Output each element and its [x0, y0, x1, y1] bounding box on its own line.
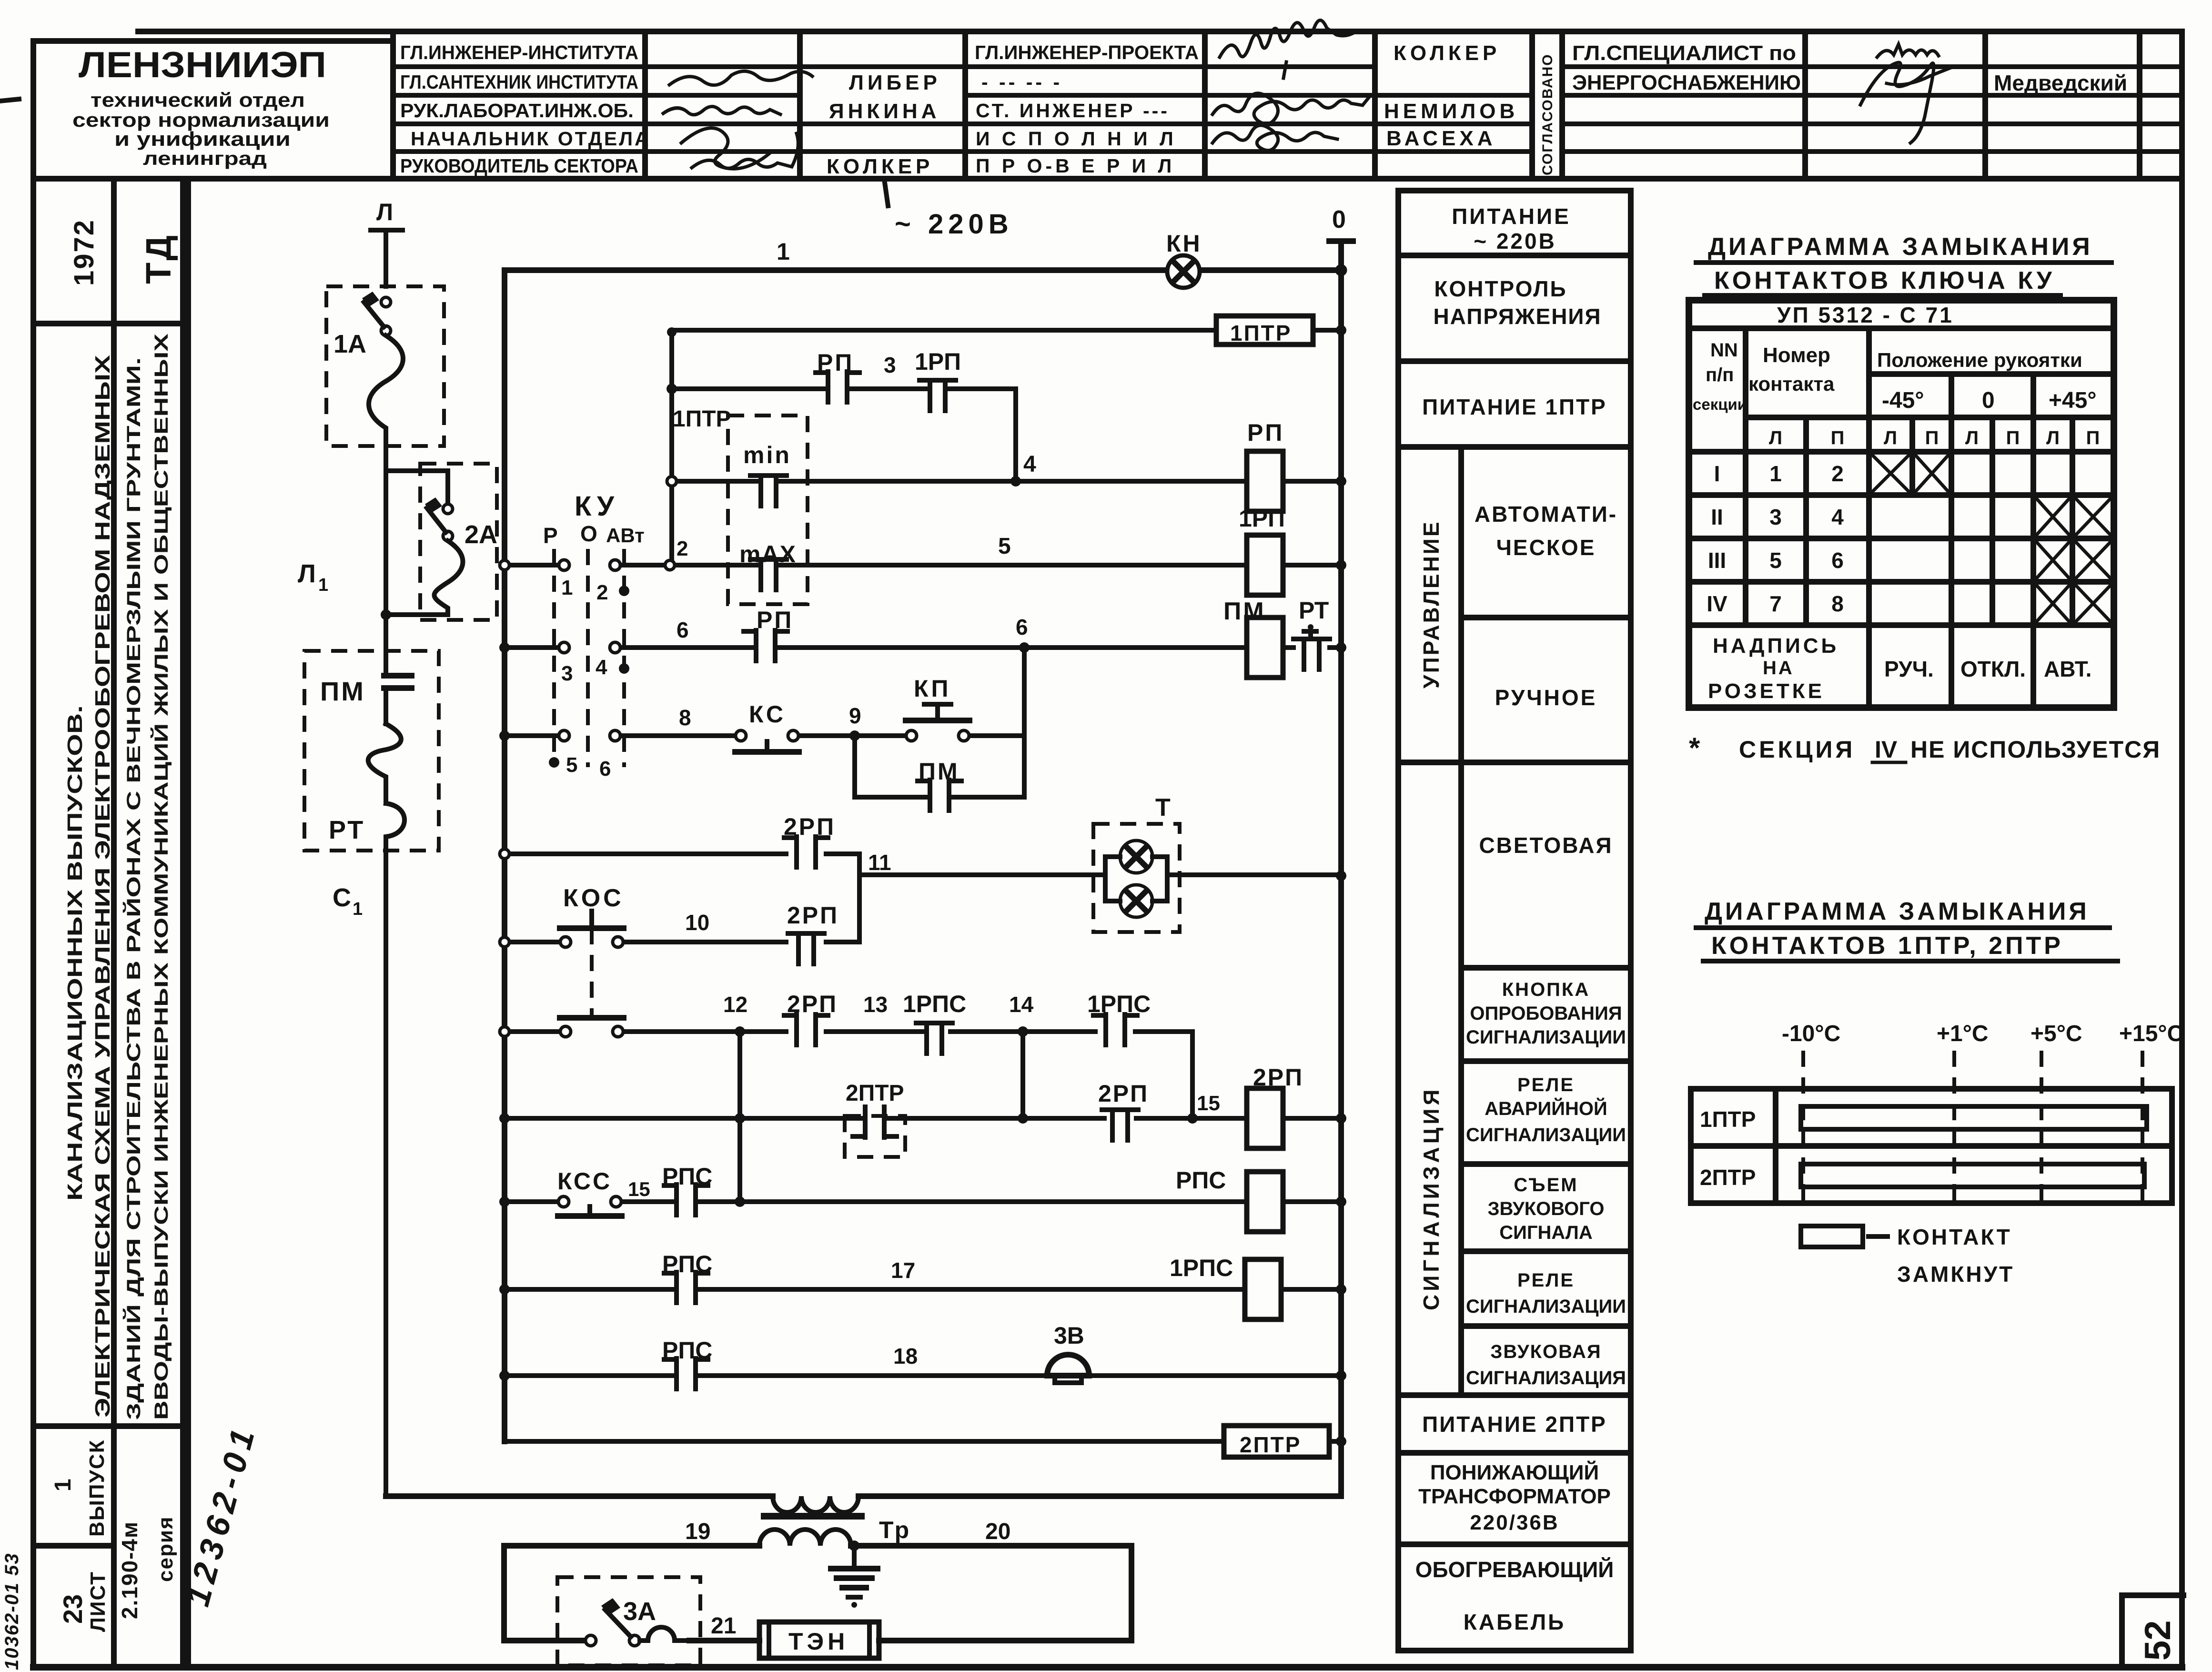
svg-text:СИГНАЛИЗАЦИЯ: СИГНАЛИЗАЦИЯ — [1466, 1368, 1626, 1388]
junction: bus row 15 — [499, 1113, 510, 1124]
wire: lamp row upper branch — [510, 854, 1093, 875]
thermal contact РТ (NC) — [1293, 597, 1330, 669]
lamp Т lower — [1120, 885, 1152, 917]
table2 title — [1705, 898, 2090, 960]
table2 row labels — [1700, 1107, 1756, 1190]
svg-text:3: 3 — [884, 353, 896, 377]
svg-text:РПС: РПС — [662, 1251, 712, 1277]
wire: row 4 (auto via min) — [672, 479, 1341, 484]
svg-text:ПМ: ПМ — [919, 758, 960, 785]
svg-text:КОНТАКТОВ 1ПТР, 2ПТР: КОНТАКТОВ 1ПТР, 2ПТР — [1711, 932, 2063, 960]
svg-text:КОНТАКТ: КОНТАКТ — [1897, 1225, 2012, 1249]
svg-text:Номер: Номер — [1763, 344, 1830, 367]
wire: row 17 — [505, 1287, 1341, 1292]
label С1 — [333, 883, 363, 919]
svg-text:4: 4 — [1831, 505, 1844, 529]
svg-text:6: 6 — [1831, 548, 1844, 573]
key КУ contact 4 — [596, 642, 620, 679]
svg-text:NN: NN — [1710, 340, 1738, 361]
contactor ПМ main contact — [384, 671, 412, 724]
button КСС — [557, 1168, 622, 1216]
wire: row 6 (manual) — [510, 645, 1341, 650]
label: реле аварийной сигнализации — [1466, 1074, 1626, 1145]
svg-text:-10°С: -10°С — [1782, 1021, 1840, 1046]
breaker 2А thermal element — [386, 541, 463, 615]
svg-text:8: 8 — [1831, 591, 1844, 616]
svg-text:5: 5 — [1769, 548, 1782, 573]
svg-text:Л: Л — [1965, 427, 1979, 448]
svg-text:1А: 1А — [333, 330, 366, 358]
svg-text:КП: КП — [914, 675, 951, 702]
ground — [831, 1546, 878, 1608]
svg-text:ВВОДЫ-ВЫПУСКИ ИНЖЕНЕРНЫХ КОМ: ВВОДЫ-ВЫПУСКИ ИНЖЕНЕРНЫХ КОММУНИКАЦИЙ ЖИ… — [150, 334, 172, 1420]
svg-text:2ПТР: 2ПТР — [846, 1081, 904, 1106]
svg-text:1: 1 — [51, 1479, 76, 1491]
resistor 2ПТР (feed) — [1224, 1426, 1329, 1457]
junction: node14 x row15 — [1018, 1113, 1028, 1124]
svg-text:КОЛКЕР: КОЛКЕР — [1394, 41, 1500, 65]
svg-text:СТ. ИНЖЕНЕР ---: СТ. ИНЖЕНЕР --- — [976, 100, 1170, 122]
svg-text:ТЭН: ТЭН — [788, 1628, 848, 1655]
svg-text:СЕКЦИЯ: СЕКЦИЯ — [1739, 736, 1855, 763]
svg-text:РПС: РПС — [662, 1163, 712, 1190]
table1 X marks rows II-IV — [2033, 495, 2114, 625]
svg-text:220/36В: 220/36В — [1470, 1511, 1559, 1534]
svg-text:6: 6 — [677, 618, 689, 642]
svg-text:2: 2 — [596, 581, 608, 604]
junction: bus node 2ПТР — [1336, 1436, 1346, 1447]
contact 2РП (lamp branch, NC) — [788, 933, 824, 964]
phase terminal Л — [371, 199, 403, 286]
resistor 1ПТР (feed) — [1216, 316, 1313, 345]
wire: right bus N — [1338, 241, 1344, 1496]
svg-text:РУЧ.: РУЧ. — [1884, 657, 1934, 681]
header titles middle block — [975, 41, 1199, 177]
svg-text:ЭЛЕКТРИЧЕСКАЯ СХЕМА УПРАВЛЕН: ЭЛЕКТРИЧЕСКАЯ СХЕМА УПРАВЛЕНИЯ ЭЛЕКТРООБ… — [91, 355, 114, 1418]
svg-text:2РП: 2РП — [787, 902, 839, 929]
breaker 2А dashed enclosure — [420, 464, 497, 620]
svg-text:КАБЕЛЬ: КАБЕЛЬ — [1464, 1610, 1566, 1634]
svg-text:IV: IV — [1875, 736, 1898, 763]
svg-text:ПИТАНИЕ 1ПТР: ПИТАНИЕ 1ПТР — [1422, 395, 1607, 419]
svg-text:П: П — [2006, 427, 2020, 448]
svg-text:РУЧНОЕ: РУЧНОЕ — [1495, 685, 1597, 710]
svg-text:ГЛ.ИНЖЕНЕР-ПРОЕКТА: ГЛ.ИНЖЕНЕР-ПРОЕКТА — [975, 41, 1199, 63]
table2 temperature labels — [1782, 1021, 2183, 1046]
svg-text:КН: КН — [1166, 230, 1202, 257]
svg-text:*: * — [1689, 732, 1700, 764]
svg-text:1: 1 — [318, 575, 328, 595]
svg-text:НАЧАЛЬНИК ОТДЕЛА: НАЧАЛЬНИК ОТДЕЛА — [411, 128, 651, 150]
wire: row 5 (auto via max) — [510, 563, 1341, 567]
svg-text:1РПС: 1РПС — [1170, 1255, 1233, 1281]
svg-text:КОЛКЕР: КОЛКЕР — [827, 155, 933, 178]
svg-text:12: 12 — [723, 992, 747, 1017]
svg-text:+45°: +45° — [2049, 388, 2097, 413]
wire: node 12 drop — [737, 1032, 742, 1202]
svg-text:23: 23 — [58, 1594, 88, 1624]
svg-text:ЧЕСКОЕ: ЧЕСКОЕ — [1496, 535, 1596, 560]
svg-text:1ПТР: 1ПТР — [1700, 1107, 1756, 1132]
svg-text:РТ: РТ — [329, 816, 365, 844]
signature: медведский — [1877, 44, 1939, 57]
svg-text:КУ: КУ — [575, 491, 619, 522]
junction: row 3 tee — [667, 384, 677, 394]
svg-text:ТД: ТД — [139, 233, 178, 284]
svg-text:ЛИБЕР: ЛИБЕР — [849, 71, 941, 94]
contact 1ПТР min — [750, 476, 787, 506]
svg-text:РТ: РТ — [1299, 597, 1329, 624]
wire: row 12 — [510, 1032, 1192, 1118]
junction: 2А rejoin — [381, 609, 391, 620]
signal lamps Т dashed enclosure — [1093, 824, 1180, 932]
svg-text:ГЛ.САНТЕХНИК ИНСТИТУТА: ГЛ.САНТЕХНИК ИНСТИТУТА — [400, 71, 638, 93]
svg-text:Л: Л — [1769, 427, 1782, 448]
bus terminal lamp row — [500, 849, 509, 859]
svg-text:1: 1 — [561, 576, 573, 599]
svg-text:2А: 2А — [465, 520, 497, 549]
svg-text:Л: Л — [298, 559, 316, 588]
svg-text:КОНТАКТОВ КЛЮЧА КУ: КОНТАКТОВ КЛЮЧА КУ — [1714, 267, 2055, 294]
svg-text:КНОПКА: КНОПКА — [1502, 979, 1590, 1000]
svg-text:РП: РП — [817, 349, 854, 376]
lamp КН — [1166, 230, 1202, 288]
junction: bus node ПМ — [1336, 642, 1346, 653]
svg-text:О: О — [580, 521, 597, 546]
svg-text:1РП: 1РП — [1239, 505, 1285, 532]
relay coil РП — [1247, 419, 1284, 511]
svg-text:и унификации: и унификации — [114, 128, 291, 150]
svg-text:-45°: -45° — [1882, 388, 1924, 413]
logo ЛЕНЗНИИЭП — [72, 45, 330, 169]
svg-text:НА: НА — [1763, 658, 1794, 679]
table1 X marks row I — [1869, 452, 1951, 495]
table1 title — [1708, 233, 2093, 294]
label Л1 — [298, 559, 328, 595]
svg-text:ЗВУКОВАЯ: ЗВУКОВАЯ — [1490, 1341, 1601, 1362]
svg-text:~ 220В: ~ 220В — [895, 209, 1013, 240]
wire: top bus (node 1) — [505, 267, 1341, 273]
svg-text:СИГНАЛИЗАЦИИ: СИГНАЛИЗАЦИИ — [1466, 1296, 1626, 1317]
svg-text:8: 8 — [679, 705, 691, 730]
label column grid — [1398, 191, 1631, 1651]
contact 1РПС (NO) — [1093, 1014, 1137, 1045]
svg-text:ТРАНСФОРМАТОР: ТРАНСФОРМАТОР — [1418, 1485, 1611, 1508]
svg-text:Л: Л — [1884, 427, 1897, 448]
key КУ contact 2 — [596, 560, 620, 604]
svg-text:10: 10 — [685, 910, 709, 935]
junction: bus row 8 — [499, 730, 510, 741]
wire: left control bus — [502, 270, 507, 1441]
bus terminal row 5 — [500, 560, 509, 570]
wire: 2ПТР feed row — [505, 1439, 1341, 1444]
svg-text:контакта: контакта — [1748, 373, 1835, 395]
breaker 3А switch — [586, 1598, 640, 1646]
svg-text:15: 15 — [1197, 1092, 1220, 1115]
bell ЗВ — [1047, 1322, 1089, 1383]
svg-text:АВТ.: АВТ. — [2044, 657, 2091, 681]
svg-text:52: 52 — [2138, 1620, 2178, 1661]
svg-text:СИГНАЛИЗАЦИИ: СИГНАЛИЗАЦИИ — [1466, 1027, 1626, 1048]
thermal relay РТ heater element — [368, 724, 401, 803]
svg-text:СИГНАЛИЗАЦИИ: СИГНАЛИЗАЦИИ — [1466, 1125, 1626, 1145]
svg-text:ЯНКИНА: ЯНКИНА — [829, 100, 940, 123]
wire: secondary row — [504, 1543, 1131, 1549]
node 9 — [849, 703, 861, 741]
svg-text:РПС: РПС — [1176, 1167, 1226, 1194]
label: питание 220в — [1452, 204, 1571, 253]
breaker 1А thermal element — [369, 335, 403, 446]
svg-text:7: 7 — [1769, 591, 1782, 616]
label: реле сигнализации — [1466, 1270, 1626, 1317]
relay coil 1РП — [1239, 505, 1285, 595]
junction: bus row 18 — [499, 1370, 510, 1381]
svg-text:НЕМИЛОВ: НЕМИЛОВ — [1384, 100, 1518, 123]
thermal relay РТ heater loop — [386, 803, 404, 851]
key КУ column О — [586, 549, 590, 767]
contact 1РПС (NC) — [916, 1023, 952, 1054]
svg-text:СВЕТОВАЯ: СВЕТОВАЯ — [1479, 833, 1613, 858]
contact 2РП (signal chain, NO) — [784, 1014, 828, 1045]
contactor ПМ dashed enclosure — [304, 651, 439, 851]
relay coil 2РП — [1247, 1064, 1303, 1148]
svg-text:6: 6 — [1016, 615, 1028, 639]
svg-text:АВАРИЙНОЙ: АВАРИЙНОЙ — [1485, 1097, 1607, 1119]
svg-text:1ПТР: 1ПТР — [673, 406, 731, 432]
svg-text:ленинград: ленинград — [143, 148, 267, 169]
contact РПС (NO, seal) — [664, 1185, 708, 1215]
svg-text:1РПС: 1РПС — [1087, 991, 1151, 1017]
junction: bus node 1РП — [1336, 560, 1346, 570]
svg-text:1: 1 — [777, 238, 790, 265]
svg-text:РЕЛЕ: РЕЛЕ — [1517, 1270, 1575, 1291]
svg-text:1972: 1972 — [69, 219, 100, 286]
svg-text:2.190-4м: 2.190-4м — [117, 1521, 142, 1619]
svg-text:2ПТР: 2ПТР — [1700, 1165, 1756, 1190]
svg-text:КОНТРОЛЬ: КОНТРОЛЬ — [1434, 276, 1567, 301]
junction: bus node РП — [1336, 476, 1346, 486]
svg-text:IV: IV — [1707, 591, 1727, 616]
wire: lamp row lower branch — [510, 875, 859, 942]
svg-text:п/п: п/п — [1706, 365, 1734, 385]
header names left block — [827, 71, 941, 178]
key КУ contact 1 — [559, 560, 573, 599]
svg-text:КС: КС — [749, 701, 786, 728]
transformer Тр primary winding — [773, 1496, 859, 1512]
svg-text:ГЛ.СПЕЦИАЛИСТ по: ГЛ.СПЕЦИАЛИСТ по — [1572, 41, 1796, 65]
svg-text:1: 1 — [353, 899, 363, 919]
svg-text:3: 3 — [561, 662, 573, 685]
svg-text:СЪЕМ: СЪЕМ — [1514, 1175, 1578, 1196]
wire: КСС row — [510, 1199, 1341, 1204]
table1 grid — [1689, 300, 2114, 708]
svg-text:Л: Л — [2046, 427, 2060, 448]
svg-text:С: С — [333, 883, 351, 912]
svg-text:РЕЛЕ: РЕЛЕ — [1517, 1074, 1575, 1095]
junction: node12 vertical end — [735, 1196, 745, 1207]
junction: 1ПТР feed corner — [667, 327, 677, 337]
breaker 1А dashed enclosure — [326, 286, 444, 446]
wire: cable feed С1 — [384, 851, 388, 1496]
button КП (start) — [906, 675, 970, 741]
breaker 3А dashed enclosure — [557, 1577, 700, 1665]
svg-text:0: 0 — [1332, 206, 1346, 233]
svg-text:ПМ: ПМ — [1223, 598, 1266, 625]
junction: bus node 2РП — [1336, 1113, 1346, 1124]
label: кнопка опробования сигнализации — [1466, 979, 1626, 1048]
wire: lamp internal left — [1093, 857, 1120, 901]
svg-text:2РП: 2РП — [784, 813, 836, 840]
svg-text:6: 6 — [599, 757, 611, 780]
contact 2РП (NC, release) — [1102, 1110, 1138, 1140]
mark: contact 1-2 closed in АВТ — [619, 586, 629, 596]
button КОС (twin, upper) — [560, 884, 624, 947]
wire: node 14 drop — [1020, 1032, 1025, 1118]
contact РПС (row 17, NO) — [664, 1272, 708, 1303]
contact РП (seal-in, NO) — [816, 372, 859, 402]
label: понижающий трансформатор — [1418, 1460, 1611, 1534]
svg-text:2РП: 2РП — [1098, 1080, 1149, 1107]
wire: row 15 — [505, 1116, 1341, 1121]
node 14 — [1009, 992, 1034, 1037]
svg-text:ОПРОБОВАНИЯ: ОПРОБОВАНИЯ — [1470, 1003, 1622, 1024]
svg-text:5: 5 — [566, 753, 577, 777]
svg-text:III: III — [1708, 548, 1726, 573]
note секция IV — [1689, 732, 2161, 764]
contact РП (manual row, NO) — [744, 630, 788, 661]
svg-text:1РП: 1РП — [915, 348, 961, 375]
svg-text:5: 5 — [998, 534, 1011, 559]
svg-text:~ 220В: ~ 220В — [1474, 229, 1556, 253]
svg-text:18: 18 — [893, 1344, 918, 1368]
svg-text:1: 1 — [1769, 461, 1782, 486]
node 4 — [1010, 452, 1036, 486]
svg-text:2ПТР: 2ПТР — [1240, 1432, 1301, 1457]
svg-text:10362-01 53: 10362-01 53 — [1, 1552, 22, 1670]
svg-text:3: 3 — [1769, 505, 1782, 529]
contact 2РП (lamp branch, NO) — [784, 837, 828, 867]
svg-text:КОС: КОС — [563, 884, 624, 912]
mark: contact 5-6 closed in Р — [549, 757, 559, 768]
svg-text:2РП: 2РП — [1253, 1064, 1303, 1091]
key КУ column Р — [552, 549, 556, 767]
svg-text:РП: РП — [757, 607, 793, 633]
svg-text:ДИАГРАММА ЗАМЫКАНИЯ: ДИАГРАММА ЗАМЫКАНИЯ — [1705, 898, 2090, 925]
table2 box — [1691, 1089, 2172, 1203]
svg-text:ЛИСТ: ЛИСТ — [86, 1571, 110, 1632]
wire: phase drop Л1 — [384, 446, 388, 671]
svg-text:ЛЕНЗНИИЭП: ЛЕНЗНИИЭП — [79, 45, 326, 85]
breaker 2А switch — [425, 471, 453, 541]
svg-text:min: min — [743, 442, 791, 468]
contact 1РП (NC) — [919, 380, 956, 411]
svg-text:ВЫПУСК: ВЫПУСК — [85, 1439, 109, 1537]
svg-text:РУКОВОДИТЕЛЬ СЕКТОРА: РУКОВОДИТЕЛЬ СЕКТОРА — [400, 155, 638, 177]
label: съем звукового сигнала — [1487, 1175, 1604, 1243]
button КС (stop) — [735, 701, 799, 752]
node 12 — [723, 992, 747, 1037]
svg-text:ПОНИЖАЮЩИЙ: ПОНИЖАЮЩИЙ — [1430, 1460, 1599, 1484]
svg-text:РПС: РПС — [662, 1337, 712, 1364]
bus terminal КОС row 1 — [500, 937, 509, 947]
svg-text:УПРАВЛЕНИЕ: УПРАВЛЕНИЕ — [1419, 520, 1444, 689]
svg-text:- -- -- -: - -- -- - — [981, 71, 1062, 93]
svg-text:+15°С: +15°С — [2119, 1021, 2183, 1046]
svg-text:1ПТР: 1ПТР — [1230, 321, 1292, 345]
table1 bottom row — [1708, 634, 2091, 703]
lamp Т upper — [1120, 841, 1152, 873]
wire: row 3 seal-in — [672, 389, 1016, 481]
svg-text:НАДПИСЬ: НАДПИСЬ — [1713, 634, 1839, 658]
svg-text:4: 4 — [596, 656, 607, 679]
key КУ column АВТ — [622, 549, 626, 767]
svg-text:I: I — [1714, 461, 1720, 486]
scan artifact tick — [885, 182, 888, 206]
key КУ position labels — [543, 521, 645, 548]
junction: bus lamp row — [1336, 871, 1346, 881]
svg-text:НЕ ИСПОЛЬЗУЕТСЯ: НЕ ИСПОЛЬЗУЕТСЯ — [1910, 736, 2161, 763]
svg-text:секции: секции — [1693, 395, 1747, 413]
svg-text:3А: 3А — [623, 1597, 656, 1626]
contact РПС (row 18, NO) — [664, 1358, 708, 1389]
junction: bus row 18 right — [1336, 1370, 1346, 1381]
breaker 3А fuse element — [640, 1627, 689, 1641]
svg-text:П: П — [1925, 427, 1939, 448]
key КУ contact 6 — [599, 730, 620, 780]
svg-text:ГЛ.ИНЖЕНЕР-ИНСТИТУТА: ГЛ.ИНЖЕНЕР-ИНСТИТУТА — [400, 41, 638, 63]
label: контроль напряжения — [1433, 276, 1601, 329]
junction: row 4 tee — [667, 476, 677, 486]
header names middle block — [1384, 41, 1518, 150]
svg-text:ЗДАНИЙ ДЛЯ СТРОИТЕЛЬСТВА В: ЗДАНИЙ ДЛЯ СТРОИТЕЛЬСТВА В РАЙОНАХ С ВЕЧ… — [122, 357, 144, 1420]
button КОС (twin, lower) — [560, 928, 624, 1037]
node 6 — [1016, 615, 1030, 653]
label: автоматическое — [1475, 502, 1617, 560]
wire: tap to 2А — [386, 468, 448, 473]
svg-text:ОБОГРЕВАЮЩИЙ: ОБОГРЕВАЮЩИЙ — [1415, 1557, 1614, 1582]
breaker 1А switch — [362, 292, 391, 335]
svg-text:17: 17 — [891, 1258, 915, 1283]
thermostat contact 2ПТР dashed enclosure — [845, 1081, 905, 1157]
svg-text:АВТОМАТИ-: АВТОМАТИ- — [1475, 502, 1617, 527]
wire: heater loop right — [1129, 1546, 1134, 1641]
svg-text:ЗАМКНУТ: ЗАМКНУТ — [1897, 1262, 2014, 1287]
svg-text:ПМ: ПМ — [320, 676, 365, 706]
svg-text:П Р О-В Е Р И Л: П Р О-В Е Р И Л — [976, 155, 1175, 177]
key КУ contact 5 — [559, 730, 577, 777]
label: обогревающий кабель — [1415, 1557, 1614, 1634]
table2 dashed temperature lines — [1803, 1051, 2142, 1201]
thermostat 1ПТР dashed enclosure — [728, 415, 808, 604]
svg-text:И С П О Л Н И Л: И С П О Л Н И Л — [976, 128, 1177, 150]
svg-text:технический отдел: технический отдел — [91, 89, 305, 111]
header table grid — [33, 31, 2182, 179]
svg-text:серия: серия — [154, 1516, 177, 1582]
svg-text:Медведский: Медведский — [1994, 71, 2127, 95]
svg-text:+5°С: +5°С — [2030, 1021, 2082, 1046]
svg-text:3В: 3В — [1054, 1322, 1084, 1349]
relay coil РПС — [1176, 1167, 1283, 1232]
junction: bus row 17 — [499, 1284, 510, 1295]
wire: heater loop bottom — [504, 1638, 1131, 1643]
svg-text:Положение рукоятки: Положение рукоятки — [1877, 349, 2082, 371]
bus terminal КОС row 2 — [500, 1027, 509, 1036]
transformer Тр primary wire — [386, 1493, 1341, 1499]
svg-text:ДИАГРАММА ЗАМЫКАНИЯ: ДИАГРАММА ЗАМЫКАНИЯ — [1708, 233, 2093, 261]
page number 52 box — [2122, 1595, 2183, 1667]
svg-text:0: 0 — [1982, 388, 1995, 413]
relay coil 1РПС — [1170, 1255, 1281, 1319]
